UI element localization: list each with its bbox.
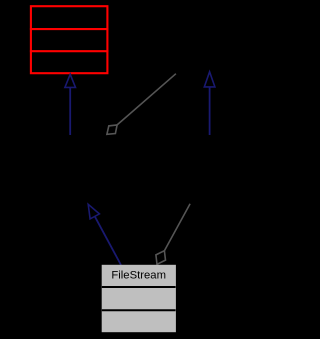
inheritance arrow (left, vertical blue) xyxy=(65,74,76,135)
aggregation edge (lower gray, with open diamond at FileStream) xyxy=(156,204,190,265)
inheritance arrow (right, vertical blue) xyxy=(204,72,215,135)
aggregation edge (upper gray, with open diamond) xyxy=(107,74,176,135)
class box (truncated, red) top-left xyxy=(30,6,109,73)
svg-text:FileStream: FileStream xyxy=(111,269,166,281)
inheritance arrow (diagonal blue, FileStream to hidden base) xyxy=(88,204,121,265)
class box FileStream (gray) xyxy=(102,265,176,332)
